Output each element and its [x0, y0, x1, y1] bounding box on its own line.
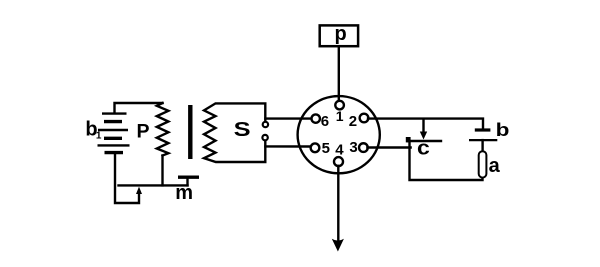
pin 1 [335, 101, 344, 110]
pin number 2 [349, 113, 357, 130]
wire: P coil bottom lead down to bottom conductor [161, 156, 163, 186]
label b [496, 120, 510, 141]
label S [234, 117, 251, 140]
wire: battery b1 negative lead to sliding tap arrow [115, 154, 139, 204]
label a [489, 155, 501, 177]
battery b [469, 130, 497, 140]
svg-text:3: 3 [349, 139, 357, 156]
detector plate c [408, 140, 441, 142]
pin number 5 [322, 140, 330, 157]
svg-text:5: 5 [322, 140, 330, 157]
wire: pin 4 down to output [337, 166, 339, 243]
S terminal (upper) [263, 122, 268, 127]
label b1 [85, 119, 102, 142]
svg-text:2: 2 [349, 113, 357, 130]
shield bar between P and S [188, 105, 192, 159]
svg-text:b: b [496, 120, 510, 141]
pin 2 [360, 114, 369, 123]
pin number 1 [336, 108, 344, 124]
pin number 3 [349, 139, 357, 156]
svg-text:S: S [234, 117, 251, 140]
wire: S upper terminal to pin 6 [265, 117, 312, 119]
svg-text:a: a [489, 155, 501, 177]
svg-text:4: 4 [335, 141, 344, 158]
svg-text:1: 1 [96, 130, 102, 141]
battery b1 [98, 114, 130, 153]
svg-text:c: c [417, 136, 430, 159]
wire: junction down, along bottom, up to rheostat a [410, 142, 483, 180]
detector arrow c (from top wire down) [422, 119, 424, 133]
pin number 6 [321, 113, 329, 130]
pin 3 [359, 143, 368, 152]
output arrowhead [332, 239, 344, 252]
pin number 4 [335, 141, 344, 158]
wire: pin 2 right and down to battery b [368, 119, 483, 129]
label p [335, 23, 347, 45]
secondary coil S (box with zigzag left edge) [204, 103, 265, 162]
pin 6 [312, 114, 320, 122]
label P [137, 120, 150, 142]
label c [417, 136, 430, 159]
svg-text:1: 1 [336, 108, 344, 124]
S terminal (lower) [262, 135, 267, 140]
label m [175, 182, 193, 204]
wire: S lower terminal to pin 5 [265, 145, 311, 148]
svg-text:P: P [137, 120, 150, 142]
wire: battery b1 positive to primary coil P top [115, 103, 163, 113]
primary coil P (zigzag) [157, 103, 169, 156]
sliding tap arrowhead onto bottom conductor [136, 187, 142, 194]
svg-text:p: p [335, 23, 347, 45]
detector arrowhead [420, 132, 427, 140]
svg-text:m: m [175, 182, 193, 204]
junction dot [406, 137, 411, 142]
tube socket circle [298, 96, 380, 173]
pin 5 [311, 143, 320, 152]
plate box p [320, 25, 358, 46]
wire: battery b to rheostat a [481, 140, 483, 151]
wire: bottom conductor (tap rail) [119, 184, 188, 186]
contact m (stub and plate) [186, 178, 188, 186]
wire: p box to pin 1 [338, 47, 340, 101]
pin 4 [334, 157, 343, 166]
svg-text:6: 6 [321, 113, 329, 130]
rheostat a (capsule) [479, 151, 487, 177]
wire: pin 3 to junction [367, 146, 410, 148]
